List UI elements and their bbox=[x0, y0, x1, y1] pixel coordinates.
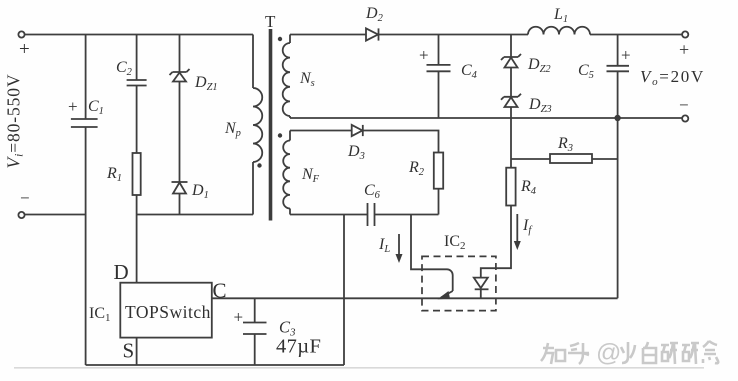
input + terminal bbox=[18, 31, 29, 60]
svg-text:@: @ bbox=[596, 339, 621, 367]
svg-text:TOPSwitch: TOPSwitch bbox=[125, 302, 211, 322]
transformer core bbox=[269, 29, 273, 221]
opto LED bbox=[474, 278, 489, 299]
capacitor C1 bbox=[68, 35, 104, 215]
wire: NF bottom to bottom rail crossover bbox=[343, 215, 345, 366]
svg-text:+: + bbox=[234, 308, 244, 327]
pin C bbox=[212, 279, 618, 303]
input - terminal bbox=[18, 189, 29, 219]
feedback winding NF bbox=[283, 131, 319, 215]
diode D1 bbox=[172, 182, 209, 215]
TOPSwitch IC1 bbox=[89, 283, 212, 338]
faint separator line bbox=[14, 367, 704, 369]
capacitor C2 bbox=[116, 35, 147, 86]
current arrow If bbox=[514, 214, 534, 250]
svg-text:+: + bbox=[419, 46, 429, 65]
wire: top rail D2 to L1 bbox=[379, 34, 529, 36]
wire: top input rail bbox=[25, 34, 253, 36]
secondary winding Ns bbox=[283, 35, 315, 119]
wire: top rail L1 to + output bbox=[590, 34, 682, 36]
wire: left vertical to bottom rail bbox=[85, 215, 87, 366]
diode D2 bbox=[365, 5, 384, 41]
opto LED feed from R4 bbox=[481, 206, 511, 278]
pin S bbox=[123, 338, 137, 365]
output - terminal bbox=[679, 96, 689, 122]
primary dot bbox=[257, 163, 261, 167]
wire: drain rail bbox=[137, 214, 253, 216]
svg-text:S: S bbox=[123, 339, 135, 363]
wire: NF bottom rail bbox=[290, 214, 368, 216]
capacitor C4 bbox=[419, 35, 478, 119]
svg-text:+: + bbox=[68, 97, 78, 116]
resistor R3 bbox=[511, 135, 618, 163]
zener DZ2 bbox=[501, 35, 551, 97]
svg-text:−: − bbox=[20, 189, 30, 208]
svg-text:+: + bbox=[19, 39, 30, 60]
svg-text:+: + bbox=[621, 46, 631, 65]
primary winding Np bbox=[224, 35, 262, 215]
Ns dot bbox=[278, 37, 282, 41]
wire: bottom source rail bbox=[86, 364, 344, 366]
svg-text:47µF: 47µF bbox=[276, 336, 321, 358]
wire: output return rail bbox=[290, 117, 682, 119]
current arrow IL bbox=[378, 234, 403, 263]
diode D3 bbox=[347, 125, 365, 162]
svg-text:Vo=20V: Vo=20V bbox=[640, 67, 705, 88]
output + terminal bbox=[679, 31, 689, 59]
resistor R2 bbox=[408, 153, 443, 215]
svg-text:D: D bbox=[114, 260, 129, 284]
phototransistor collector wire bbox=[411, 215, 453, 292]
svg-text:−: − bbox=[679, 96, 689, 115]
zener DZ1 bbox=[170, 35, 218, 183]
wire: right feedback vertical bbox=[617, 118, 619, 298]
resistor R1 bbox=[106, 86, 141, 215]
capacitor C5 bbox=[578, 35, 631, 119]
phototransistor emitter arrow bbox=[438, 291, 453, 299]
wire: feedback top NF to D3 bbox=[290, 130, 352, 132]
inductor L1 bbox=[528, 6, 590, 35]
resistor R4 bbox=[506, 118, 537, 206]
wire: D3 to R2 corner bbox=[363, 131, 439, 153]
zener DZ3 bbox=[501, 94, 552, 118]
svg-text:+: + bbox=[679, 40, 689, 60]
node: output return junction bbox=[614, 115, 620, 121]
svg-text:T: T bbox=[265, 12, 276, 31]
wire: input minus segment bbox=[25, 214, 86, 216]
capacitor C3 bbox=[234, 298, 322, 365]
watermark zhihu bbox=[541, 341, 718, 364]
optocoupler IC2 dashed box bbox=[422, 233, 496, 311]
pin D bbox=[114, 215, 137, 285]
svg-text:C: C bbox=[213, 279, 227, 303]
NF dot bbox=[278, 133, 282, 137]
wire: secondary top rail to D2 bbox=[290, 34, 366, 36]
capacitor C6 bbox=[364, 182, 439, 226]
